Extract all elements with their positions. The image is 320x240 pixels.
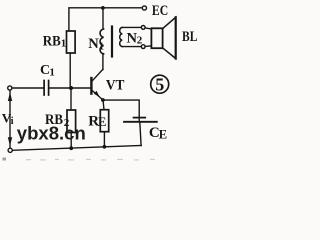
wire: emitter to RE (103, 100, 104, 110)
node: RE bottom junction (103, 145, 107, 149)
svg-text:N: N (127, 30, 138, 46)
transformer core (111, 27, 113, 57)
wire: collector up to N1 (102, 54, 104, 70)
svg-text:1: 1 (99, 41, 105, 53)
capacitor C1 plates (43, 81, 45, 96)
svg-text:E: E (98, 115, 106, 129)
transformer N2 winding (120, 27, 122, 46)
resistor RB2 (70, 90, 72, 110)
node: RB2 bottom junction (69, 146, 73, 150)
svg-text:EC: EC (152, 3, 168, 19)
wire: bottom rail (slightly slanted as in scan) (12, 146, 141, 151)
capacitor CE plates (134, 117, 146, 119)
svg-text:VT: VT (106, 78, 125, 94)
svg-text:5: 5 (155, 74, 164, 94)
bottom cut-off text remnants (3, 158, 156, 161)
svg-text:2: 2 (137, 35, 143, 47)
resistor RB1 (67, 31, 76, 53)
svg-text:BL: BL (182, 29, 197, 45)
wire: CE bottom lead to rail (140, 122, 141, 146)
svg-text:1: 1 (61, 37, 66, 49)
wire: input to C1 (12, 87, 43, 89)
wire: emitter node to CE (103, 100, 139, 122)
svg-text:E: E (159, 128, 167, 142)
wire: RB1 bottom to base junction (69, 53, 71, 88)
terminal: input bottom circle (8, 148, 12, 152)
svg-text:N: N (88, 36, 99, 52)
speaker BL (145, 28, 151, 29)
wire: top supply rail (69, 8, 142, 31)
resistor RE (100, 110, 108, 132)
node: emitter junction (101, 98, 105, 102)
transistor VT (90, 78, 92, 94)
wire: C1 to base (50, 87, 91, 89)
terminal N2 bottom circle (141, 45, 145, 49)
svg-text:i: i (11, 116, 14, 127)
wire: input source vertical with arrows (9, 90, 11, 148)
terminal: input top circle (8, 86, 12, 90)
node: junction top rail / N1 (101, 6, 105, 10)
svg-text:ybx8.cn: ybx8.cn (17, 122, 86, 143)
node: base junction dot (69, 86, 73, 90)
terminal N2 top circle (141, 26, 145, 30)
transformer N1 winding (102, 8, 104, 29)
svg-text:1: 1 (49, 67, 55, 79)
terminal EC open circle (142, 6, 146, 10)
svg-text:RB: RB (43, 33, 61, 49)
figure number circle 5 (151, 75, 169, 93)
